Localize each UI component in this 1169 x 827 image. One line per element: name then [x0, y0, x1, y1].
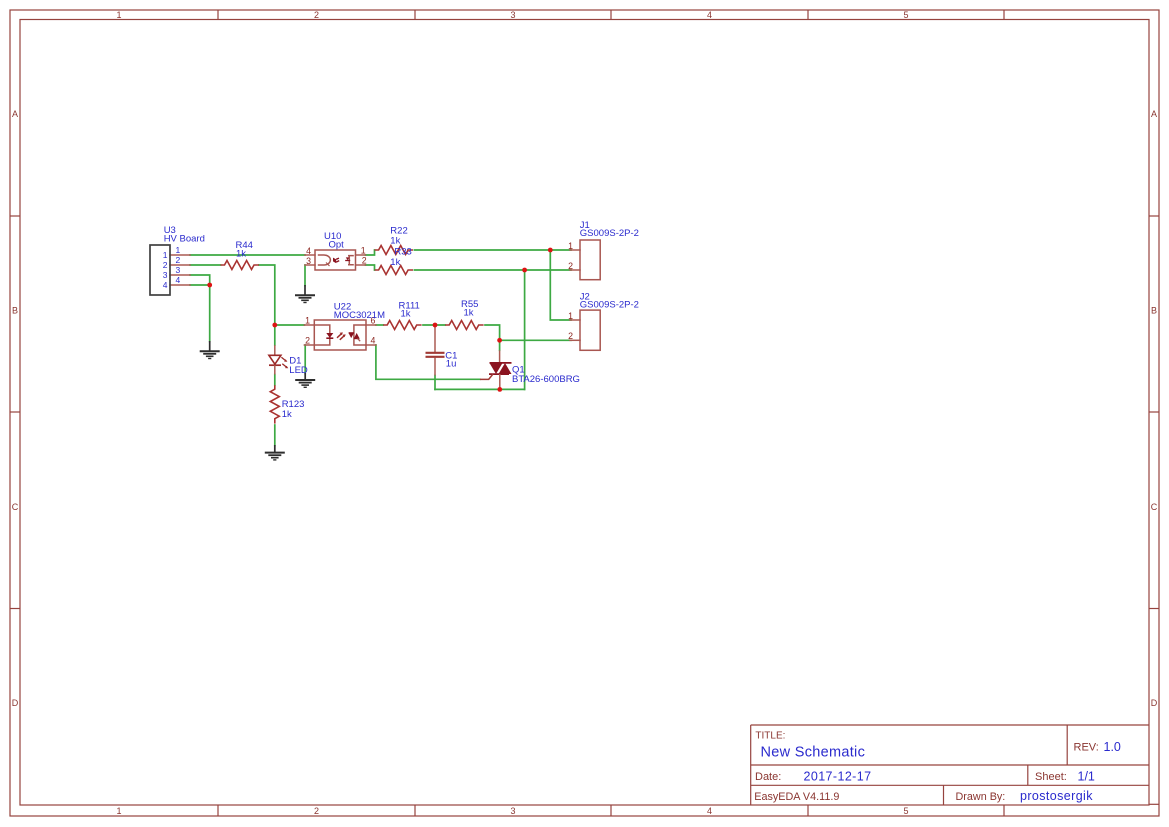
wire R22 to J1 pin1	[414, 249, 571, 251]
svg-text:3: 3	[163, 270, 168, 280]
U3 pin 3 stub	[170, 274, 190, 276]
op-coupler U10 Opt	[306, 231, 367, 270]
frame row letters right	[1151, 109, 1158, 708]
svg-text:B: B	[12, 306, 18, 316]
svg-text:New Schematic: New Schematic	[761, 745, 866, 761]
svg-text:C: C	[12, 502, 19, 512]
svg-text:1k: 1k	[390, 236, 400, 247]
wire U3 pin4 to node	[190, 284, 210, 286]
svg-text:1: 1	[176, 245, 181, 255]
wire U3 pin2 to R44	[190, 264, 221, 266]
resistor R44	[221, 240, 259, 270]
svg-text:4: 4	[163, 280, 168, 290]
wire net branch J1 pin2 down to bottom rail	[524, 270, 526, 389]
wire R33 to J1 pin2	[414, 269, 571, 271]
svg-text:MOC3021M: MOC3021M	[334, 310, 385, 321]
svg-text:Date:: Date:	[755, 771, 781, 783]
svg-text:HV Board: HV Board	[164, 234, 205, 245]
junction node R111/R55/C1	[433, 323, 438, 328]
wire node to ground G1	[209, 285, 211, 342]
svg-text:2: 2	[314, 10, 319, 20]
svg-text:1/1: 1/1	[1078, 770, 1095, 784]
wire U10 pin3 to ground G2	[304, 265, 306, 286]
svg-text:2: 2	[568, 261, 573, 271]
wire D1 cathode to R123	[274, 375, 276, 386]
U10 pin 1 stub	[356, 254, 366, 256]
wire U22 pin2 to ground G3	[304, 345, 306, 374]
wire C1 bottom to bottom rail	[434, 376, 436, 390]
U10 pin 2 stub	[356, 264, 366, 266]
title block	[751, 725, 1149, 805]
U22 pin 1 stub	[304, 324, 314, 326]
svg-text:1: 1	[361, 246, 366, 256]
svg-text:A: A	[1151, 109, 1157, 119]
svg-text:1: 1	[116, 806, 121, 816]
wire R44 to node at U22 pin1	[259, 265, 275, 325]
svg-text:5: 5	[903, 806, 908, 816]
wire U22 pin6 to R111	[376, 324, 383, 326]
junction node J1 pin1 branch	[548, 248, 553, 253]
svg-text:3: 3	[510, 10, 515, 20]
wire R123 to ground G4	[274, 425, 276, 446]
svg-text:4: 4	[176, 275, 181, 285]
svg-text:2: 2	[314, 806, 319, 816]
triac Q1 BTA26-600BRG	[480, 350, 580, 389]
svg-text:4: 4	[371, 336, 376, 346]
svg-text:1u: 1u	[446, 359, 457, 370]
svg-text:2: 2	[568, 331, 573, 341]
U3 pin 1 stub	[170, 254, 190, 256]
resistor R123	[270, 385, 304, 423]
svg-text:2017-12-17: 2017-12-17	[804, 770, 872, 784]
U10 pin 4 stub	[305, 254, 315, 256]
frame column numbers top	[116, 10, 908, 20]
svg-text:GS009S-2P-2: GS009S-2P-2	[580, 300, 639, 311]
U22 pin 6 stub	[366, 324, 376, 326]
SCHEMATIC	[190, 250, 571, 446]
svg-text:D: D	[12, 698, 19, 708]
connector U3 HV Board	[150, 225, 205, 295]
ground G4 (R123)	[265, 445, 285, 460]
svg-text:1k: 1k	[282, 409, 292, 420]
svg-text:4: 4	[707, 10, 712, 20]
junction node J1 pin2 branch	[522, 268, 527, 273]
wire bottom rail	[435, 388, 525, 390]
J1 pin 2 stub	[570, 269, 580, 271]
wire node to U22 pin1	[275, 324, 305, 326]
J1 pin 1 stub	[570, 249, 580, 251]
ground G2 (U10 pin 3)	[295, 285, 315, 303]
svg-text:1: 1	[116, 10, 121, 20]
junction node Q1 bottom rail	[497, 387, 502, 392]
LED D1	[269, 345, 308, 376]
connector J2 GS009S-2P-2	[568, 292, 639, 351]
svg-text:B: B	[1151, 306, 1157, 316]
svg-text:2: 2	[176, 255, 181, 265]
wire U10 pin2 jog to R33	[366, 265, 375, 270]
title block text	[754, 731, 1121, 804]
connector J1 GS009S-2P-2	[568, 220, 639, 280]
J2 pin 2 stub	[570, 339, 580, 341]
svg-text:4: 4	[306, 246, 311, 256]
svg-text:prostosergik: prostosergik	[1020, 789, 1093, 803]
opto-triac U22 MOC3021M	[305, 302, 385, 350]
U10 pin 3 stub	[305, 264, 315, 266]
svg-text:1: 1	[568, 241, 573, 251]
svg-text:1k: 1k	[464, 307, 474, 318]
svg-text:A: A	[12, 109, 18, 119]
U22 pin 4 stub	[366, 344, 376, 346]
resistor R33	[375, 247, 413, 275]
J2 pin 1 stub	[570, 319, 580, 321]
svg-text:1k: 1k	[401, 308, 411, 319]
svg-text:4: 4	[707, 806, 712, 816]
svg-text:TITLE:: TITLE:	[755, 731, 785, 742]
svg-text:2: 2	[305, 336, 310, 346]
svg-text:3: 3	[306, 256, 311, 266]
wire U3 pin3 to pin4 node	[190, 275, 210, 285]
U3 pin 4 stub	[170, 284, 190, 286]
svg-text:1: 1	[568, 311, 573, 321]
pin stubs	[170, 250, 580, 345]
resistor R22	[375, 226, 413, 255]
wire U10 pin1 jog to R22	[366, 250, 375, 255]
svg-text:Sheet:: Sheet:	[1035, 771, 1067, 783]
resistor R55	[445, 299, 483, 330]
capacitor C1	[426, 325, 458, 376]
svg-text:1.0: 1.0	[1104, 740, 1121, 754]
ground G1 (U3 pins 3/4)	[200, 341, 220, 359]
svg-text:BTA26-600BRG: BTA26-600BRG	[512, 374, 580, 385]
svg-text:1k: 1k	[236, 248, 246, 259]
resistor R111	[383, 300, 421, 329]
svg-text:1k: 1k	[390, 257, 400, 268]
wire node down to D1 anode	[274, 325, 276, 345]
wire R111 to node C1	[423, 324, 445, 326]
ground G3 (U22 pin 2)	[295, 373, 315, 387]
wire R55 to Q1 top node	[485, 325, 500, 350]
U3 pin 2 stub	[170, 264, 190, 266]
wire net branch J1 pin1 to J2 pin1	[550, 250, 571, 320]
junction node U3 pin3/4	[207, 283, 212, 288]
wire U22 pin4 to Q1 gate	[376, 345, 480, 379]
svg-text:3: 3	[510, 806, 515, 816]
U22 pin 2 stub	[304, 344, 314, 346]
svg-text:Drawn By:: Drawn By:	[956, 791, 1006, 803]
svg-text:Opt: Opt	[329, 240, 345, 251]
svg-text:GS009S-2P-2: GS009S-2P-2	[580, 228, 639, 239]
svg-text:REV:: REV:	[1074, 742, 1099, 754]
wire U3 pin1 to U10 pin4	[190, 254, 305, 256]
junction node R44/U22 pin1/D1	[272, 323, 277, 328]
svg-text:C: C	[1151, 502, 1158, 512]
svg-text:1: 1	[163, 250, 168, 260]
svg-text:2: 2	[362, 256, 367, 266]
wire Q1 top node to J2 pin2	[500, 339, 571, 341]
svg-text:1: 1	[305, 316, 310, 326]
svg-text:3: 3	[176, 265, 181, 275]
svg-text:5: 5	[903, 10, 908, 20]
svg-text:D: D	[1151, 698, 1158, 708]
junction node Q1 top / J2 pin2	[497, 338, 502, 343]
frame row letters left	[12, 109, 19, 708]
frame column numbers bottom	[116, 806, 908, 816]
svg-text:2: 2	[163, 260, 168, 270]
svg-text:EasyEDA V4.11.9: EasyEDA V4.11.9	[754, 791, 839, 803]
